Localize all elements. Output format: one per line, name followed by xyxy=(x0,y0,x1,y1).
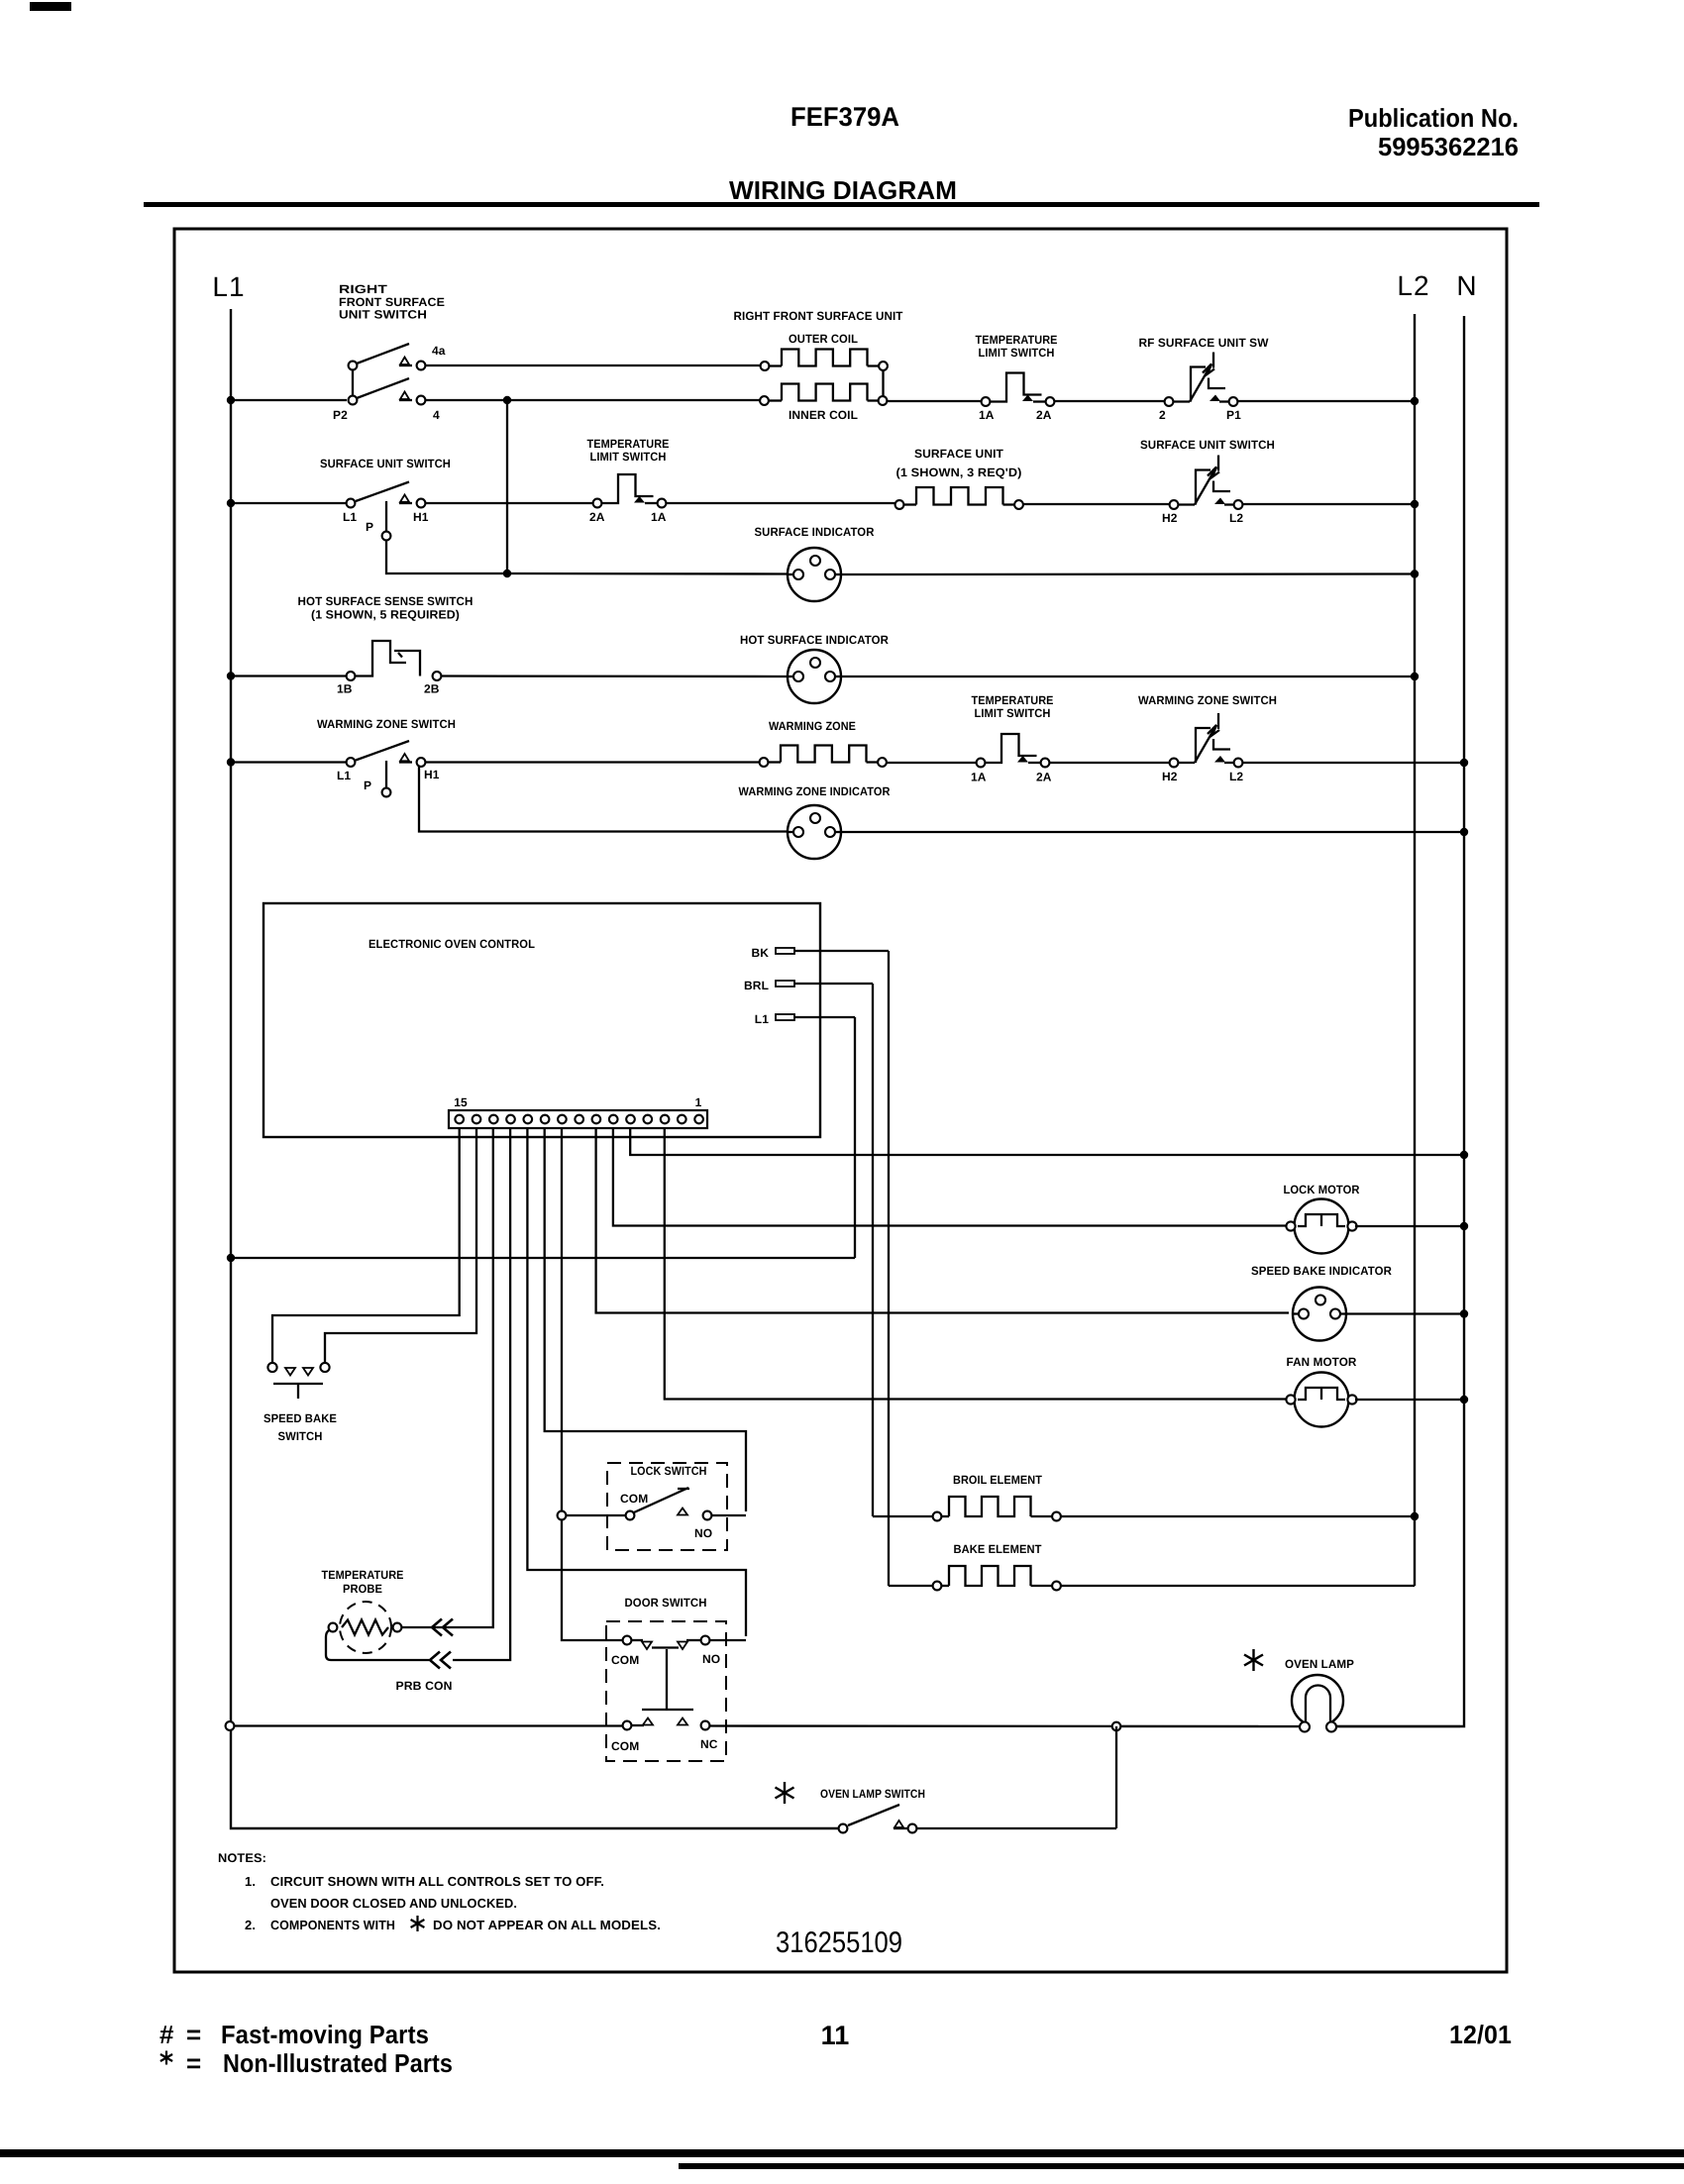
svg-text:RF SURFACE UNIT SW: RF SURFACE UNIT SW xyxy=(1139,336,1270,350)
terminal L1 bus door switch row xyxy=(226,1721,235,1730)
svg-text:RIGHT FRONT SURFACE UNIT: RIGHT FRONT SURFACE UNIT xyxy=(734,309,904,323)
svg-text:DO NOT APPEAR ON ALL MODELS.: DO NOT APPEAR ON ALL MODELS. xyxy=(433,1918,661,1932)
wire row1 tap down to indicator row xyxy=(506,404,508,570)
wire switch 4a to outer coil xyxy=(425,364,761,366)
wire warming zone indicator to N xyxy=(841,831,1464,833)
svg-text:BROIL ELEMENT: BROIL ELEMENT xyxy=(953,1473,1043,1487)
wire BRL to broil element feed xyxy=(872,984,874,1516)
wire L1 to surface unit switch xyxy=(235,502,347,504)
wire pin10 to lock switch NO xyxy=(545,1128,746,1511)
svg-text:LIMIT SWITCH: LIMIT SWITCH xyxy=(979,346,1055,360)
svg-text:12/01: 12/01 xyxy=(1449,2020,1512,2049)
svg-text:5995362216: 5995362216 xyxy=(1378,132,1519,161)
pin BRL connector xyxy=(744,979,873,992)
resistor broil element xyxy=(933,1473,1061,1520)
wire P tap down to indicator row xyxy=(386,541,504,574)
junction N lock motor xyxy=(1460,1222,1468,1230)
svg-text:WARMING ZONE SWITCH: WARMING ZONE SWITCH xyxy=(1138,693,1277,707)
svg-text:H1: H1 xyxy=(424,768,440,781)
svg-text:#: # xyxy=(159,2020,174,2049)
svg-text:P: P xyxy=(366,520,373,534)
wire pin14 to speed bake switch xyxy=(325,1128,476,1362)
wire to L2 row2 xyxy=(1243,503,1416,505)
wire L1 to hot surface sense switch xyxy=(235,675,347,676)
svg-text:Fast-moving Parts: Fast-moving Parts xyxy=(221,2020,429,2049)
wire N bus xyxy=(1336,316,1464,1726)
svg-text:L2: L2 xyxy=(1397,270,1429,301)
svg-text:2A: 2A xyxy=(1036,771,1052,784)
svg-text:SURFACE UNIT: SURFACE UNIT xyxy=(914,447,1004,461)
junction L2 row1 xyxy=(1411,397,1419,405)
svg-text:11: 11 xyxy=(821,2021,850,2050)
svg-text:SURFACE UNIT SWITCH: SURFACE UNIT SWITCH xyxy=(1140,438,1275,452)
lamp speed bake indicator xyxy=(1251,1264,1392,1341)
wire L2 bus xyxy=(1414,314,1416,1586)
footer rule xyxy=(0,2149,1684,2157)
switch door switch xyxy=(606,1596,726,1761)
svg-text:DOOR SWITCH: DOOR SWITCH xyxy=(625,1596,707,1610)
svg-text:TEMPERATURE: TEMPERATURE xyxy=(972,693,1054,707)
wire pin11 to door switch NO xyxy=(527,1128,746,1636)
switch speed bake switch xyxy=(263,1363,337,1443)
svg-text:NOTES:: NOTES: xyxy=(218,1851,266,1865)
svg-text:LIMIT SWITCH: LIMIT SWITCH xyxy=(590,450,667,464)
svg-text:ELECTRONIC OVEN CONTROL: ELECTRONIC OVEN CONTROL xyxy=(368,937,535,951)
lamp surface indicator xyxy=(755,525,875,601)
svg-text:WARMING ZONE: WARMING ZONE xyxy=(769,719,856,733)
svg-text:UNIT SWITCH: UNIT SWITCH xyxy=(339,308,427,322)
wire pin3 to fan motor xyxy=(665,1128,1287,1400)
svg-text:OVEN DOOR CLOSED AND UNLOCKED.: OVEN DOOR CLOSED AND UNLOCKED. xyxy=(270,1896,517,1911)
svg-text:BRL: BRL xyxy=(744,979,769,992)
wire L1 to right front surface unit switch xyxy=(235,399,347,401)
switch hot surface sense switch xyxy=(298,594,474,696)
wire EOC L1 feed xyxy=(854,1017,856,1258)
svg-text:NC: NC xyxy=(700,1737,718,1751)
svg-text:N: N xyxy=(1456,270,1477,301)
temperature limit switch row1 xyxy=(976,333,1058,422)
svg-text:COM: COM xyxy=(611,1653,639,1667)
junction L2 row3 xyxy=(1411,673,1419,680)
junction L1 row2 xyxy=(227,499,235,507)
svg-text:=: = xyxy=(186,2048,201,2078)
temperature limit switch row4 xyxy=(971,693,1054,784)
switch oven lamp switch xyxy=(776,1782,926,1832)
svg-text:OUTER COIL: OUTER COIL xyxy=(789,332,858,346)
junction N row4 xyxy=(1460,759,1468,767)
switch surface unit switch left xyxy=(320,457,451,534)
junction N speed bake indicator xyxy=(1460,1309,1468,1317)
resistor outer coil xyxy=(734,309,904,370)
switch warming zone switch left xyxy=(317,717,456,792)
svg-text:2.: 2. xyxy=(245,1918,256,1932)
svg-text:L1: L1 xyxy=(343,510,357,524)
svg-text:2A: 2A xyxy=(1036,408,1052,422)
wire BRL to broil element xyxy=(873,1515,933,1517)
svg-text:15: 15 xyxy=(454,1095,468,1109)
wire pin7 to speed bake indicator xyxy=(596,1128,1289,1313)
svg-text:2A: 2A xyxy=(589,510,605,524)
wire pin12 to probe return xyxy=(453,1128,510,1660)
wire speed bake indicator to N xyxy=(1346,1312,1464,1314)
wire riser junction to lamp xyxy=(1120,1725,1301,1727)
svg-text:Non-Illustrated Parts: Non-Illustrated Parts xyxy=(223,2048,453,2078)
wire surface indicator to L2 xyxy=(841,572,1415,575)
scan artifact top left xyxy=(30,2,71,11)
wire broil element to L2 xyxy=(1061,1515,1415,1517)
svg-text:TEMPERATURE: TEMPERATURE xyxy=(322,1568,404,1582)
svg-text:OVEN LAMP: OVEN LAMP xyxy=(1285,1657,1354,1671)
wire probe to chevron xyxy=(402,1626,454,1628)
svg-text:1A: 1A xyxy=(979,408,995,422)
terminal P surface unit switch xyxy=(382,532,391,541)
junction L1 row4 xyxy=(227,758,235,766)
junction indicator row tap xyxy=(503,570,511,577)
svg-text:CIRCUIT SHOWN WITH ALL CONTROL: CIRCUIT SHOWN WITH ALL CONTROLS SET TO O… xyxy=(270,1874,604,1889)
svg-text:L1: L1 xyxy=(212,271,245,302)
wire coil pair right link xyxy=(882,370,884,396)
wire inner coil to temperature limit switch xyxy=(888,400,983,402)
junction N pin5 row xyxy=(1460,1151,1468,1159)
svg-text:L1: L1 xyxy=(337,769,351,782)
svg-text:1A: 1A xyxy=(651,510,667,524)
lamp oven lamp xyxy=(1244,1649,1354,1732)
svg-text:1.: 1. xyxy=(245,1874,256,1889)
wire pin13 to temperature probe xyxy=(453,1128,493,1627)
wire bake element to L2 xyxy=(1061,1585,1415,1587)
resistor surface unit element xyxy=(895,447,1023,509)
svg-text:LOCK MOTOR: LOCK MOTOR xyxy=(1284,1183,1360,1196)
svg-text:2: 2 xyxy=(1159,408,1166,422)
svg-text:L2: L2 xyxy=(1229,770,1243,783)
pin BK connector xyxy=(751,946,889,960)
svg-text:=: = xyxy=(186,2020,201,2049)
motor fan motor xyxy=(1286,1355,1356,1427)
svg-text:OVEN LAMP SWITCH: OVEN LAMP SWITCH xyxy=(820,1787,925,1801)
wire H1 down to warming zone indicator xyxy=(419,767,788,832)
svg-text:SURFACE UNIT SWITCH: SURFACE UNIT SWITCH xyxy=(320,457,451,470)
svg-text:NO: NO xyxy=(694,1526,712,1540)
junction N indicator row xyxy=(1460,828,1468,836)
junction oven lamp switch riser xyxy=(1112,1722,1121,1731)
svg-text:LOCK SWITCH: LOCK SWITCH xyxy=(631,1464,707,1478)
svg-text:H1: H1 xyxy=(413,510,429,524)
svg-text:HOT SURFACE SENSE SWITCH: HOT SURFACE SENSE SWITCH xyxy=(298,594,474,608)
wire pin9 to door switch COM xyxy=(562,1128,623,1640)
svg-text:HOT SURFACE INDICATOR: HOT SURFACE INDICATOR xyxy=(740,633,889,647)
svg-text:SURFACE INDICATOR: SURFACE INDICATOR xyxy=(755,525,875,539)
title underline rule xyxy=(144,202,1539,207)
svg-text:(1 SHOWN, 3 REQ'D): (1 SHOWN, 3 REQ'D) xyxy=(896,466,1022,479)
wire L1 bus to EOC L1 pin xyxy=(235,1257,855,1259)
junction L2 row2 xyxy=(1411,500,1419,508)
svg-text:4: 4 xyxy=(433,408,440,422)
svg-text:H2: H2 xyxy=(1162,511,1178,525)
IC U1 electronic oven control xyxy=(263,903,820,1137)
svg-text:1A: 1A xyxy=(971,771,987,784)
diagram border frame xyxy=(174,229,1507,1972)
wire to N row4 xyxy=(1243,762,1465,764)
svg-text:L2: L2 xyxy=(1229,511,1243,525)
svg-text:PROBE: PROBE xyxy=(343,1582,382,1596)
svg-text:TEMPERATURE: TEMPERATURE xyxy=(976,333,1058,347)
motor lock motor xyxy=(1284,1183,1360,1254)
junction L2 broil xyxy=(1411,1512,1419,1520)
svg-text:SPEED BAKE: SPEED BAKE xyxy=(263,1411,337,1425)
svg-text:PRB CON: PRB CON xyxy=(396,1679,453,1693)
wire probe return loop xyxy=(326,1630,429,1660)
junction L2 indicator row xyxy=(1411,570,1419,577)
switch surface unit switch right xyxy=(1140,438,1275,525)
wire junction to inner coil xyxy=(510,399,761,401)
wire limit switch to surface unit element xyxy=(667,502,896,504)
wire oven lamp switch riser xyxy=(1115,1726,1117,1828)
svg-text:L1: L1 xyxy=(755,1012,769,1026)
resistor inner coil xyxy=(760,384,887,423)
wire limit switch to rf surface unit sw xyxy=(1055,400,1166,402)
junction L1 row3 xyxy=(227,672,235,679)
junction L1 row1 xyxy=(227,396,235,404)
switch rf surface unit sw xyxy=(1139,336,1270,422)
svg-text:BAKE ELEMENT: BAKE ELEMENT xyxy=(954,1542,1043,1556)
svg-text:INNER COIL: INNER COIL xyxy=(789,408,858,422)
wire oven lamp switch to riser xyxy=(917,1827,1117,1829)
wire L1 to warming zone switch xyxy=(235,761,347,763)
wire H1 to warming zone element xyxy=(425,761,760,763)
svg-text:P2: P2 xyxy=(333,408,348,422)
wire pin15 to speed bake switch xyxy=(272,1128,460,1362)
resistor bake element xyxy=(933,1542,1061,1590)
svg-text:P: P xyxy=(364,779,371,792)
svg-text:WARMING ZONE INDICATOR: WARMING ZONE INDICATOR xyxy=(739,784,891,798)
resistor warming zone element xyxy=(760,719,887,767)
svg-text:2B: 2B xyxy=(424,682,440,696)
wire P tap warming zone switch xyxy=(385,761,387,787)
svg-text:316255109: 316255109 xyxy=(776,1926,902,1959)
wire pin6 to lock motor xyxy=(613,1128,1287,1226)
lamp hot surface indicator xyxy=(740,633,889,703)
svg-text:COMPONENTS WITH: COMPONENTS WITH xyxy=(270,1918,395,1932)
wire H1 to temperature limit switch row2 xyxy=(425,502,593,504)
wire BK to bake element xyxy=(889,1585,933,1587)
svg-text:SWITCH: SWITCH xyxy=(278,1429,323,1443)
svg-text:LIMIT SWITCH: LIMIT SWITCH xyxy=(975,706,1051,720)
svg-text:H2: H2 xyxy=(1162,770,1178,783)
svg-text:SPEED BAKE INDICATOR: SPEED BAKE INDICATOR xyxy=(1251,1264,1392,1278)
wire limit switch to warming zone switch right xyxy=(1050,762,1171,764)
svg-text:FEF379A: FEF379A xyxy=(790,102,899,132)
wire lock switch NO to riser xyxy=(712,1514,747,1516)
svg-text:NO: NO xyxy=(702,1652,720,1666)
wire door switch NO up to pin11 riser xyxy=(710,1639,747,1641)
svg-text:4a: 4a xyxy=(432,344,446,358)
junction N fan motor xyxy=(1460,1396,1468,1404)
connector probe chevron bottom xyxy=(430,1652,440,1669)
temperature limit switch row2 xyxy=(587,437,670,524)
wire door switch NC to oven lamp xyxy=(710,1724,1302,1727)
junction L1 EOC row xyxy=(227,1254,235,1262)
switch lock switch xyxy=(607,1463,727,1550)
wire sense switch to hot surface indicator xyxy=(442,675,789,677)
switch warming zone switch right xyxy=(1138,693,1277,783)
junction row1 tap xyxy=(503,396,511,404)
wire switch 4 to junction xyxy=(425,399,504,401)
svg-text:Publication No.: Publication No. xyxy=(1348,103,1519,133)
wire tap to lock switch COM xyxy=(567,1514,626,1516)
wire L1 bus xyxy=(231,309,838,1828)
wire element to surface unit switch right xyxy=(1023,503,1170,505)
connector probe chevron top xyxy=(432,1619,442,1636)
wire pin5 to neutral xyxy=(630,1128,1464,1155)
wire fan motor to N xyxy=(1355,1399,1464,1401)
svg-text:TEMPERATURE: TEMPERATURE xyxy=(587,437,670,451)
wire L1 bus to door switch COM2 xyxy=(235,1724,624,1726)
switch right front surface unit switch xyxy=(333,282,446,422)
wire hot surface indicator to L2 xyxy=(841,676,1415,677)
wire element to temperature limit switch row4 xyxy=(887,762,977,764)
wire rf switch to L2 xyxy=(1238,400,1416,402)
svg-text:WARMING ZONE SWITCH: WARMING ZONE SWITCH xyxy=(317,717,456,731)
wire lock motor to N xyxy=(1355,1225,1464,1227)
thermistor temperature probe xyxy=(322,1568,404,1653)
pin L1 connector xyxy=(755,1012,855,1026)
terminal strip header pins 1-15 xyxy=(449,1095,707,1128)
svg-text:P1: P1 xyxy=(1226,408,1241,422)
terminal tap lock switch COM xyxy=(558,1511,567,1520)
svg-text:WIRING DIAGRAM: WIRING DIAGRAM xyxy=(729,175,957,205)
svg-text:BK: BK xyxy=(751,946,769,960)
svg-text:FAN MOTOR: FAN MOTOR xyxy=(1287,1355,1357,1369)
wire oven lamp to N bus corner xyxy=(1336,1725,1460,1727)
svg-text:RIGHT: RIGHT xyxy=(339,282,388,296)
footer non illustrated parts xyxy=(165,2051,167,2065)
svg-text:COM: COM xyxy=(611,1739,639,1753)
wire P tap of surface unit switch xyxy=(385,501,387,531)
terminal P warming zone switch xyxy=(382,788,391,797)
svg-text:1B: 1B xyxy=(337,682,353,696)
wire BK to bake element feed xyxy=(888,951,890,1586)
lamp warming zone indicator xyxy=(739,784,891,859)
svg-text:1: 1 xyxy=(695,1095,702,1109)
svg-text:COM: COM xyxy=(620,1492,648,1506)
wire junction to surface indicator xyxy=(510,572,788,575)
svg-text:(1 SHOWN, 5 REQUIRED): (1 SHOWN, 5 REQUIRED) xyxy=(311,608,460,622)
